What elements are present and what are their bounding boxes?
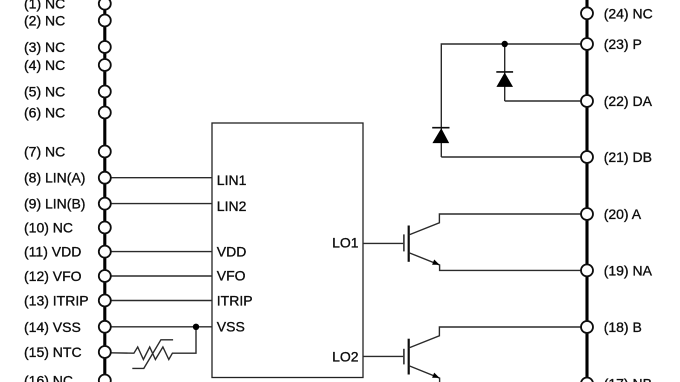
svg-text:(2) NC: (2) NC (24, 13, 65, 29)
svg-text:(24) NC: (24) NC (604, 5, 653, 21)
svg-text:LIN1: LIN1 (217, 172, 247, 188)
svg-text:(9) LIN(B): (9) LIN(B) (24, 196, 85, 212)
svg-text:VFO: VFO (217, 267, 246, 283)
svg-text:(3) NC: (3) NC (24, 39, 65, 55)
svg-text:(6) NC: (6) NC (24, 105, 65, 121)
svg-text:(14) VSS: (14) VSS (24, 319, 81, 335)
svg-text:ITRIP: ITRIP (217, 293, 253, 309)
svg-text:(1) NC: (1) NC (24, 0, 65, 12)
svg-text:(18) B: (18) B (604, 319, 642, 335)
svg-text:LIN2: LIN2 (217, 198, 247, 214)
svg-text:(12) VFO: (12) VFO (24, 268, 82, 284)
svg-text:(16) NC: (16) NC (24, 373, 73, 382)
svg-text:(20) A: (20) A (604, 206, 642, 222)
svg-text:(4) NC: (4) NC (24, 57, 65, 73)
svg-text:(19) NA: (19) NA (604, 262, 653, 278)
svg-text:(23) P: (23) P (604, 36, 642, 52)
svg-text:(11) VDD: (11) VDD (24, 244, 81, 260)
svg-text:VSS: VSS (217, 318, 245, 334)
svg-text:(8) LIN(A): (8) LIN(A) (24, 170, 85, 186)
svg-text:(21) DB: (21) DB (604, 149, 652, 165)
svg-text:LO2: LO2 (332, 349, 359, 365)
svg-text:(5) NC: (5) NC (24, 84, 65, 100)
svg-text:(15) NTC: (15) NTC (24, 344, 82, 360)
svg-text:(7) NC: (7) NC (24, 144, 65, 160)
svg-text:LO1: LO1 (332, 235, 359, 251)
svg-text:(13) ITRIP: (13) ITRIP (24, 293, 89, 309)
svg-text:(22) DA: (22) DA (604, 93, 653, 109)
svg-text:VDD: VDD (217, 244, 247, 260)
svg-text:(10) NC: (10) NC (24, 220, 73, 236)
svg-text:(17) NB: (17) NB (604, 376, 652, 382)
